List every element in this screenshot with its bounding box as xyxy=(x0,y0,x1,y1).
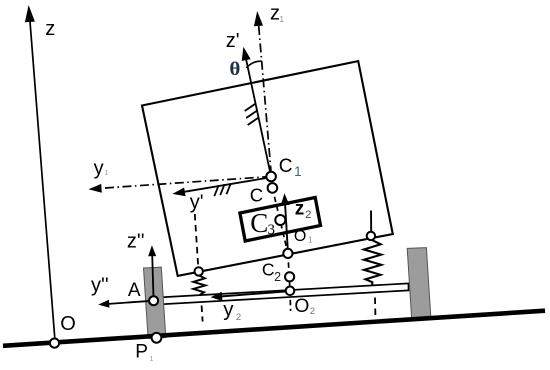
axis y1 dash-dot line xyxy=(99,177,271,189)
svg-text:y: y xyxy=(94,158,104,180)
svg-text:2: 2 xyxy=(305,209,311,221)
svg-text:O: O xyxy=(294,296,309,317)
axis y-prime arrowhead xyxy=(173,188,186,197)
axis y2 line xyxy=(220,291,290,296)
svg-text:1: 1 xyxy=(150,356,154,363)
axis y-prime line xyxy=(182,178,270,193)
svg-text:y': y' xyxy=(190,192,204,214)
axis z1 dash-dot line xyxy=(259,26,273,188)
svg-text:2: 2 xyxy=(310,306,315,317)
svg-text:y: y xyxy=(223,298,234,321)
svg-text:1: 1 xyxy=(105,170,109,177)
svg-text:C: C xyxy=(262,260,275,280)
node C1 xyxy=(266,172,276,182)
node O2 xyxy=(286,287,295,296)
hatch marks on y-prime xyxy=(214,185,218,196)
svg-text:3: 3 xyxy=(268,222,276,238)
axis z-prime arrowhead xyxy=(242,47,251,61)
C3 box xyxy=(240,198,321,242)
right dashed vertical below bar xyxy=(374,298,377,321)
axis z2 arrowhead xyxy=(281,193,290,205)
svg-text:A: A xyxy=(128,280,141,301)
axis z world line xyxy=(30,22,55,341)
node C xyxy=(268,183,278,193)
svg-text:2: 2 xyxy=(236,312,241,323)
axis z-doubleprime line xyxy=(152,255,153,301)
svg-text:1: 1 xyxy=(308,235,313,244)
svg-text:z: z xyxy=(270,3,280,25)
node line O1 to O2 dashed xyxy=(288,253,290,290)
hatch marks on z-prime xyxy=(245,104,256,112)
dashed line below O2 xyxy=(289,291,292,311)
axis z2 line xyxy=(285,204,288,253)
axis z1 arrowhead xyxy=(254,11,263,26)
theta angle arc xyxy=(246,61,261,68)
node O xyxy=(50,339,59,348)
node left spring mount xyxy=(195,267,203,275)
svg-text:y'': y'' xyxy=(91,274,109,296)
svg-text:z'': z'' xyxy=(127,231,145,253)
svg-text:O: O xyxy=(60,313,76,335)
node right spring mount xyxy=(367,232,375,240)
svg-text:C: C xyxy=(279,156,293,177)
axis y-doubleprime line xyxy=(107,301,154,304)
svg-text:z: z xyxy=(45,18,55,40)
left dashed vertical above spring xyxy=(195,214,198,267)
axis z world arrowhead xyxy=(25,5,35,22)
svg-text:O: O xyxy=(294,228,306,245)
svg-text:C: C xyxy=(250,185,263,206)
svg-text:z': z' xyxy=(226,30,240,52)
axis z-prime line xyxy=(246,60,271,177)
axis z-doubleprime arrowhead xyxy=(148,245,156,256)
left gray post xyxy=(144,267,166,338)
node A xyxy=(149,296,158,305)
left spring xyxy=(193,275,205,294)
svg-text:1: 1 xyxy=(294,164,302,179)
svg-text:C: C xyxy=(250,208,268,238)
svg-text:θ: θ xyxy=(229,59,240,80)
left dashed vertical below bar xyxy=(202,306,203,322)
node line C to O1 dashed xyxy=(272,188,288,253)
axis y1 arrowhead xyxy=(89,184,102,193)
svg-text:2: 2 xyxy=(274,270,281,284)
axis y-doubleprime arrowhead xyxy=(98,300,109,308)
bar platform xyxy=(156,283,409,304)
axis y2 arrowhead xyxy=(211,292,223,301)
node P xyxy=(152,333,162,343)
body rectangle xyxy=(142,61,393,276)
node C2 xyxy=(285,272,294,281)
svg-text:1: 1 xyxy=(280,15,285,24)
node O1 xyxy=(283,249,292,258)
ground line xyxy=(3,311,545,346)
node C3 point xyxy=(275,215,285,225)
right spring xyxy=(364,240,381,285)
right vertical line above spring xyxy=(370,211,372,232)
svg-text:z: z xyxy=(295,199,305,220)
right gray post xyxy=(407,248,431,320)
svg-text:P: P xyxy=(135,341,148,362)
